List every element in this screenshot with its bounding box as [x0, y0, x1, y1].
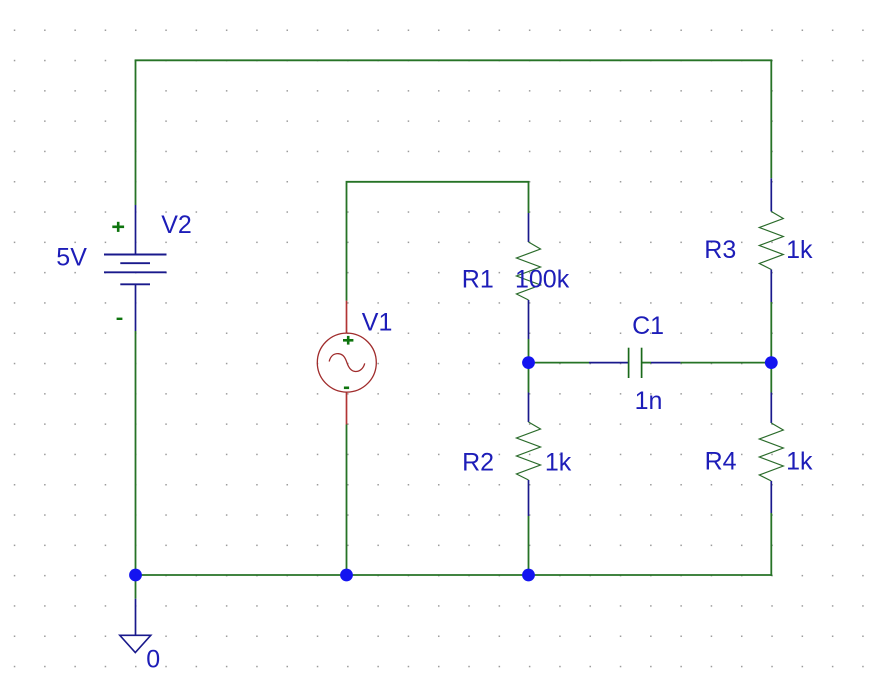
- node junction V1 bottom: [340, 569, 353, 582]
- wire V1 top loop: [347, 182, 529, 301]
- wire right-mid: [770, 302, 772, 393]
- wire C1-right node: [680, 362, 771, 364]
- resistor R4: [759, 393, 783, 514]
- node junction left bottom: [129, 569, 142, 582]
- svg-text:1k: 1k: [786, 236, 813, 264]
- resistor R1: [517, 213, 541, 339]
- resistor R3: [759, 178, 783, 302]
- ground: [120, 599, 151, 653]
- svg-text:V1: V1: [362, 309, 393, 337]
- svg-text:1n: 1n: [635, 387, 663, 415]
- wire node-R2: [528, 363, 530, 393]
- wire left-bottom: [135, 331, 137, 575]
- battery V2 plus mark: [112, 222, 124, 232]
- svg-text:R4: R4: [705, 448, 737, 476]
- wire top: [135, 59, 773, 61]
- svg-text:V2: V2: [161, 211, 192, 239]
- wire bottom: [135, 574, 773, 576]
- voltage source V1 leads: [346, 301, 348, 425]
- resistor R2: [517, 393, 541, 517]
- node junction R1-R2-C1: [522, 356, 535, 369]
- node junction R2 bottom: [522, 569, 535, 582]
- svg-text:1k: 1k: [545, 449, 572, 477]
- battery V2: [104, 205, 167, 331]
- wire V1 bottom: [346, 425, 348, 576]
- svg-text:R1: R1: [462, 265, 494, 293]
- wire R2-bottom: [528, 516, 530, 575]
- wire C1 stub right: [642, 362, 651, 364]
- wire right-top: [770, 60, 772, 178]
- svg-text:1k: 1k: [786, 448, 813, 476]
- wire right-bottom: [770, 513, 772, 576]
- battery V2 minus mark: [117, 318, 123, 320]
- svg-text:100k: 100k: [515, 265, 570, 293]
- svg-text:0: 0: [146, 645, 160, 673]
- capacitor C1: [589, 348, 680, 378]
- wire ground stub: [135, 575, 137, 599]
- wire left-top: [135, 60, 137, 205]
- node junction R3-R4-C1: [765, 356, 778, 369]
- svg-text:5V: 5V: [56, 244, 87, 272]
- V1 plus mark: [343, 336, 353, 345]
- voltage source V1 circle: [317, 333, 376, 392]
- wire node-C1 left: [529, 362, 590, 364]
- svg-text:R2: R2: [462, 449, 494, 477]
- voltage source V1 sine: [329, 354, 365, 372]
- wire R1-node: [528, 339, 530, 363]
- svg-text:C1: C1: [632, 312, 664, 340]
- V1 minus mark: [344, 386, 349, 389]
- svg-text:R3: R3: [704, 236, 736, 264]
